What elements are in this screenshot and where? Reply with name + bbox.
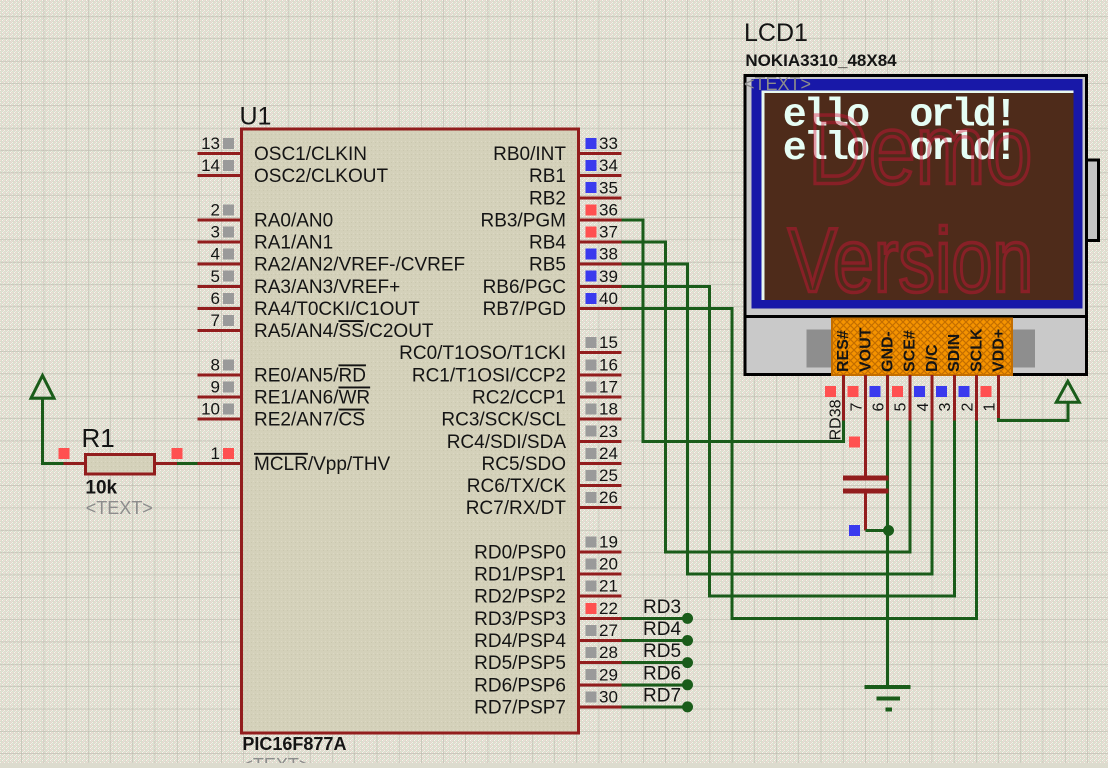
svg-text:RC5/SDO: RC5/SDO bbox=[482, 454, 566, 475]
svg-text:28: 28 bbox=[599, 643, 618, 662]
svg-text:33: 33 bbox=[599, 134, 618, 153]
svg-text:16: 16 bbox=[599, 355, 618, 374]
svg-text:14: 14 bbox=[201, 156, 220, 175]
svg-text:RES#: RES# bbox=[835, 330, 852, 372]
svg-text:5: 5 bbox=[893, 403, 910, 412]
svg-text:NOKIA3310_48X84: NOKIA3310_48X84 bbox=[745, 51, 897, 70]
svg-text:RB3/PGM: RB3/PGM bbox=[480, 210, 566, 231]
svg-text:RA1/AN1: RA1/AN1 bbox=[254, 233, 333, 254]
svg-text:LCD1: LCD1 bbox=[744, 19, 808, 47]
svg-text:17: 17 bbox=[599, 378, 618, 397]
svg-text:RB6/PGC: RB6/PGC bbox=[483, 277, 566, 298]
svg-text:5: 5 bbox=[211, 267, 220, 286]
svg-text:RA4/T0CKI/C1OUT: RA4/T0CKI/C1OUT bbox=[254, 299, 420, 320]
svg-text:RC2/CCP1: RC2/CCP1 bbox=[472, 388, 566, 409]
svg-text:RC6/TX/CK: RC6/TX/CK bbox=[467, 476, 567, 497]
svg-text:RD6/PSP6: RD6/PSP6 bbox=[474, 675, 566, 696]
svg-text:RD5: RD5 bbox=[643, 641, 681, 662]
svg-text:<TEXT>: <TEXT> bbox=[242, 755, 309, 763]
svg-text:OSC2/CLKOUT: OSC2/CLKOUT bbox=[254, 166, 388, 187]
svg-text:38: 38 bbox=[599, 245, 618, 264]
svg-text:<TEXT>: <TEXT> bbox=[86, 498, 153, 518]
svg-text:22: 22 bbox=[599, 599, 618, 618]
svg-text:RA3/AN3/VREF+: RA3/AN3/VREF+ bbox=[254, 277, 400, 298]
svg-text:RC0/T1OSO/T1CKI: RC0/T1OSO/T1CKI bbox=[399, 343, 566, 364]
svg-text:7: 7 bbox=[211, 311, 220, 330]
svg-text:29: 29 bbox=[599, 665, 618, 684]
svg-text:SCE#: SCE# bbox=[902, 330, 919, 372]
svg-text:18: 18 bbox=[599, 400, 618, 419]
svg-text:RC7/RX/DT: RC7/RX/DT bbox=[466, 498, 567, 519]
svg-text:RD0/PSP0: RD0/PSP0 bbox=[474, 542, 566, 563]
svg-text:24: 24 bbox=[599, 444, 618, 463]
svg-text:RC3/SCK/SCL: RC3/SCK/SCL bbox=[441, 410, 566, 431]
svg-text:8: 8 bbox=[211, 355, 220, 374]
svg-text:OSC1/CLKIN: OSC1/CLKIN bbox=[254, 144, 367, 165]
svg-text:10: 10 bbox=[201, 400, 220, 419]
svg-text:2: 2 bbox=[959, 403, 976, 412]
svg-text:40: 40 bbox=[599, 289, 618, 308]
svg-text:RA0/AN0: RA0/AN0 bbox=[254, 210, 333, 231]
svg-text:RE0/AN5/RD: RE0/AN5/RD bbox=[254, 365, 366, 386]
svg-text:15: 15 bbox=[599, 333, 618, 352]
svg-text:VDD+: VDD+ bbox=[991, 329, 1008, 372]
svg-text:RD7: RD7 bbox=[643, 685, 681, 706]
svg-text:MCLR/Vpp/THV: MCLR/Vpp/THV bbox=[254, 454, 391, 475]
svg-text:RD6: RD6 bbox=[643, 663, 681, 684]
svg-text:26: 26 bbox=[599, 488, 618, 507]
svg-text:4: 4 bbox=[211, 245, 220, 264]
svg-text:RA5/AN4/SS/C2OUT: RA5/AN4/SS/C2OUT bbox=[254, 321, 434, 342]
svg-text:RD3: RD3 bbox=[643, 597, 681, 618]
svg-text:RB7/PGD: RB7/PGD bbox=[483, 299, 566, 320]
svg-text:GND-: GND- bbox=[880, 331, 897, 372]
svg-text:6: 6 bbox=[211, 289, 220, 308]
svg-text:RD5/PSP5: RD5/PSP5 bbox=[474, 653, 566, 674]
svg-text:RE2/AN7/CS: RE2/AN7/CS bbox=[254, 410, 365, 431]
svg-text:PIC16F877A: PIC16F877A bbox=[242, 734, 346, 754]
svg-text:1: 1 bbox=[982, 403, 999, 412]
svg-text:RB5: RB5 bbox=[529, 255, 566, 276]
svg-text:SDIN: SDIN bbox=[946, 334, 963, 372]
svg-text:34: 34 bbox=[599, 156, 618, 175]
svg-text:Version: Version bbox=[788, 209, 1033, 311]
svg-text:RD38: RD38 bbox=[827, 399, 844, 440]
svg-text:RD7/PSP7: RD7/PSP7 bbox=[474, 697, 566, 718]
svg-text:39: 39 bbox=[599, 267, 618, 286]
svg-text:R1: R1 bbox=[82, 423, 115, 453]
svg-text:27: 27 bbox=[599, 621, 618, 640]
svg-text:36: 36 bbox=[599, 200, 618, 219]
svg-text:RD4/PSP4: RD4/PSP4 bbox=[474, 631, 566, 652]
svg-text:<TEXT>: <TEXT> bbox=[744, 74, 811, 94]
svg-text:3: 3 bbox=[937, 403, 954, 412]
svg-text:30: 30 bbox=[599, 687, 618, 706]
svg-text:U1: U1 bbox=[240, 103, 272, 131]
svg-text:35: 35 bbox=[599, 178, 618, 197]
svg-text:RB1: RB1 bbox=[529, 166, 566, 187]
svg-text:RB0/INT: RB0/INT bbox=[493, 144, 566, 165]
svg-text:Demo: Demo bbox=[808, 95, 1032, 205]
svg-text:9: 9 bbox=[211, 378, 220, 397]
svg-text:25: 25 bbox=[599, 466, 618, 485]
svg-text:20: 20 bbox=[599, 555, 618, 574]
svg-text:RB4: RB4 bbox=[529, 233, 566, 254]
svg-text:RC1/T1OSI/CCP2: RC1/T1OSI/CCP2 bbox=[412, 365, 566, 386]
svg-text:10k: 10k bbox=[85, 477, 117, 498]
svg-text:RE1/AN6/WR: RE1/AN6/WR bbox=[254, 388, 370, 409]
svg-text:2: 2 bbox=[211, 200, 220, 219]
svg-text:19: 19 bbox=[599, 532, 618, 551]
svg-text:6: 6 bbox=[871, 403, 888, 412]
svg-text:4: 4 bbox=[915, 403, 932, 412]
svg-text:RD4: RD4 bbox=[643, 619, 681, 640]
svg-text:VOUT: VOUT bbox=[857, 327, 874, 372]
svg-text:23: 23 bbox=[599, 422, 618, 441]
svg-text:1: 1 bbox=[211, 444, 220, 463]
svg-text:SCLK: SCLK bbox=[968, 328, 985, 372]
svg-text:RD1/PSP1: RD1/PSP1 bbox=[474, 565, 566, 586]
svg-text:RB2: RB2 bbox=[529, 188, 566, 209]
svg-text:RD2/PSP2: RD2/PSP2 bbox=[474, 587, 566, 608]
svg-text:13: 13 bbox=[201, 134, 220, 153]
svg-text:RC4/SDI/SDA: RC4/SDI/SDA bbox=[447, 432, 567, 453]
svg-text:37: 37 bbox=[599, 223, 618, 242]
svg-text:3: 3 bbox=[211, 223, 220, 242]
svg-text:D/C: D/C bbox=[924, 344, 941, 372]
svg-text:7: 7 bbox=[848, 403, 865, 412]
svg-text:RD3/PSP3: RD3/PSP3 bbox=[474, 609, 566, 630]
svg-text:RA2/AN2/VREF-/CVREF: RA2/AN2/VREF-/CVREF bbox=[254, 255, 465, 276]
svg-text:21: 21 bbox=[599, 577, 618, 596]
